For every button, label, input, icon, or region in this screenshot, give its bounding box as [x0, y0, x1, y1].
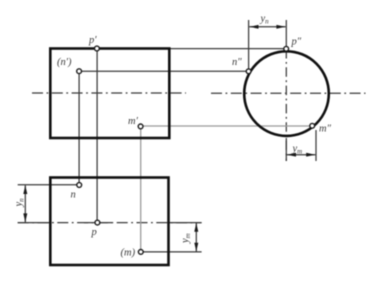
svg-text:m′: m′: [128, 116, 139, 127]
svg-text:n″: n″: [232, 57, 242, 68]
svg-text:(n′): (n′): [57, 57, 72, 68]
svg-text:(m): (m): [121, 247, 136, 258]
svg-text:p″: p″: [291, 37, 302, 48]
svg-text:m″: m″: [319, 124, 332, 135]
svg-text:p: p: [91, 227, 97, 238]
svg-text:n: n: [71, 190, 76, 201]
svg-text:p′: p′: [88, 35, 97, 46]
